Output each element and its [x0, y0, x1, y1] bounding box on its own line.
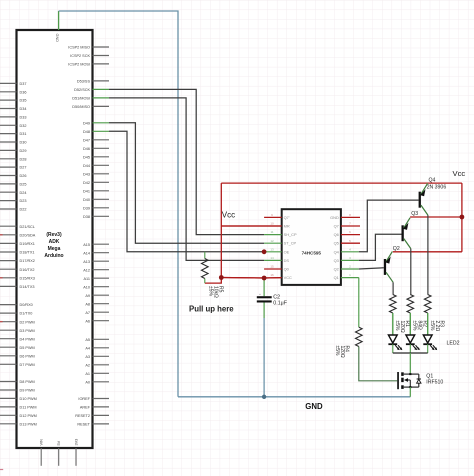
svg-text:D4 PWM: D4 PWM — [20, 337, 35, 341]
svg-text:SH_CP: SH_CP — [284, 232, 297, 237]
svg-text:D23: D23 — [20, 199, 27, 203]
svg-text:D17/RX2: D17/RX2 — [20, 259, 35, 263]
svg-text:D52/SCK: D52/SCK — [74, 88, 90, 92]
svg-text:D24: D24 — [20, 191, 27, 195]
svg-text:11: 11 — [270, 230, 273, 234]
wire 74HC595 Q4 to Q4 base — [359, 200, 419, 252]
svg-text:Q7: Q7 — [334, 224, 339, 229]
svg-text:D32: D32 — [20, 124, 27, 128]
junction dot Vcc rail right — [460, 215, 465, 220]
svg-text:VIN: VIN — [40, 439, 44, 446]
wire Q2 emitter to Vcc (red) — [393, 251, 462, 253]
svg-text:D7 PWM: D7 PWM — [20, 363, 35, 367]
transistor Q4 2N3906 (PNP) — [419, 183, 428, 215]
svg-text:D50/MISO: D50/MISO — [72, 105, 90, 109]
wire Q4 collector to R3 — [427, 215, 429, 294]
svg-text:D34: D34 — [20, 107, 27, 111]
svg-text:D30: D30 — [20, 141, 27, 145]
label Pull up here — [189, 305, 234, 314]
svg-text:12: 12 — [270, 239, 274, 243]
svg-text:A10: A10 — [83, 285, 90, 289]
label LED2 — [447, 341, 460, 347]
svg-text:A14: A14 — [83, 251, 90, 255]
svg-text:D16/TX2: D16/TX2 — [20, 268, 35, 272]
transistor Q2 (PNP) — [384, 251, 393, 282]
label Q1 IRF510 — [426, 373, 443, 385]
svg-text:16: 16 — [270, 273, 274, 277]
label R2 84Ohm 5% (rotated) — [412, 321, 428, 332]
label Q2 — [393, 246, 400, 252]
svg-text:Q1: Q1 — [426, 373, 433, 379]
wire 74HC595 Q1 to R4 — [358, 278, 360, 328]
svg-text:Mega: Mega — [48, 246, 61, 252]
svg-text:D37: D37 — [20, 82, 27, 86]
svg-text:D14/TX3: D14/TX3 — [20, 285, 35, 289]
red stub wires on GND Q7 Q6 Q5 right pins — [341, 217, 360, 243]
svg-text:±5%: ±5% — [429, 321, 435, 332]
svg-text:A12: A12 — [83, 268, 90, 272]
wire Q3 collector to R2 — [410, 249, 412, 295]
74HC595 right pin leads — [341, 252, 359, 278]
wire Vcc to VCC pin red overdraw — [221, 277, 281, 280]
label Vcc (right) — [453, 169, 466, 178]
svg-text:D49: D49 — [83, 121, 90, 125]
svg-text:Vcc: Vcc — [222, 211, 235, 220]
svg-text:D33: D33 — [20, 116, 27, 120]
label C2 0.1uF — [273, 295, 287, 307]
svg-text:13: 13 — [270, 247, 274, 251]
svg-text:A2: A2 — [85, 363, 90, 367]
svg-text:A15: A15 — [83, 243, 90, 247]
svg-text:(Rev3): (Rev3) — [46, 232, 62, 238]
svg-text:Q3: Q3 — [334, 258, 339, 263]
wire Vcc to MR red overdraw — [221, 225, 281, 227]
svg-text:±5%: ±5% — [394, 321, 400, 332]
svg-text:A9: A9 — [85, 294, 90, 298]
svg-text:D25: D25 — [20, 183, 27, 187]
wire stub edge D20/SDA (red, clipped) — [0, 234, 3, 236]
svg-text:D44: D44 — [83, 164, 90, 168]
wire Vcc vertical left (red) — [220, 183, 222, 277]
wire GND net: blue from Arduino GND to ground rail — [59, 11, 178, 397]
svg-text:D1/TX0: D1/TX0 — [20, 312, 33, 316]
svg-text:Q1: Q1 — [334, 275, 339, 280]
74HC595 right pin labels — [330, 215, 339, 280]
wire Q1 source to ground rail — [409, 387, 411, 397]
svg-text:Vcc: Vcc — [453, 169, 466, 178]
wire ground rail (blue, bottom) — [178, 396, 410, 398]
svg-text:D10 PWM: D10 PWM — [20, 397, 37, 401]
label R4 120Ohm (rotated) — [334, 346, 349, 358]
svg-text:A0: A0 — [85, 380, 90, 384]
svg-text:D9 PWM: D9 PWM — [20, 389, 35, 393]
svg-text:GND: GND — [55, 34, 59, 43]
svg-text:A11: A11 — [84, 277, 90, 281]
svg-text:D46: D46 — [83, 147, 90, 151]
svg-text:VCC: VCC — [284, 275, 292, 280]
red stub wire on Q7p lead — [264, 216, 282, 218]
LED D1 (left) — [388, 313, 402, 353]
svg-text:D36: D36 — [20, 90, 27, 94]
wire LED bus to Q1 drain — [409, 353, 411, 374]
wire stub edge bottom left (pink, clipped) — [0, 469, 3, 471]
svg-text:D26: D26 — [20, 174, 27, 178]
svg-text:RESET: RESET — [77, 423, 90, 427]
svg-text:D5 PWM: D5 PWM — [20, 346, 35, 350]
svg-text:Q3: Q3 — [411, 211, 418, 217]
svg-text:±5%: ±5% — [208, 286, 214, 297]
svg-text:D0/RX0: D0/RX0 — [20, 303, 33, 307]
resistor R5 10k pull-up — [202, 252, 209, 283]
svg-text:DS: DS — [284, 258, 290, 263]
LED D3 (right) — [423, 313, 437, 353]
74HC595 U2 body — [282, 209, 341, 285]
svg-text:D12 PWM: D12 PWM — [20, 414, 37, 418]
wire Q3 emitter to Vcc (red) — [410, 216, 462, 218]
resistor R4 120 Ohm — [356, 327, 363, 346]
svg-text:GND: GND — [330, 215, 339, 220]
svg-text:D13 PWM: D13 PWM — [20, 422, 37, 426]
svg-text:D51/MOSI: D51/MOSI — [72, 97, 90, 101]
svg-text:D18/TX1: D18/TX1 — [20, 251, 35, 255]
svg-text:Q2: Q2 — [393, 246, 400, 252]
svg-text:LED2: LED2 — [447, 341, 460, 347]
svg-text:Arduino: Arduino — [44, 253, 63, 259]
svg-text:D35: D35 — [20, 99, 27, 103]
resistor R1 120 Ohm — [390, 295, 397, 336]
junction dot Vcc/R5 node — [219, 275, 224, 280]
svg-text:D40: D40 — [83, 198, 90, 202]
svg-text:D41: D41 — [83, 189, 90, 193]
svg-text:D39: D39 — [83, 206, 90, 210]
svg-text:D22: D22 — [20, 208, 27, 212]
wire 74HC595 Q3 to Q3 base — [359, 234, 402, 260]
capacitor C2 0.1uF — [257, 278, 272, 318]
svg-text:10: 10 — [270, 222, 274, 226]
transistor Q1 IRF510 (N-MOSFET) — [397, 372, 421, 389]
wire 74HC595 Q2 to Q2 base — [359, 268, 384, 269]
svg-text:D47: D47 — [83, 138, 90, 142]
svg-text:5V: 5V — [57, 440, 61, 445]
svg-text:D43: D43 — [83, 172, 90, 176]
svg-text:D8 PWM: D8 PWM — [20, 380, 35, 384]
svg-text:Q6: Q6 — [334, 232, 339, 237]
svg-text:±5%: ±5% — [334, 346, 340, 357]
svg-text:Q4: Q4 — [429, 178, 436, 184]
svg-text:ST_CP: ST_CP — [284, 241, 297, 246]
svg-text:ICSP2 SCK: ICSP2 SCK — [70, 54, 90, 58]
svg-text:A3: A3 — [85, 355, 90, 359]
svg-text:A8: A8 — [85, 302, 90, 306]
junction dot VCC/C2 node — [262, 276, 267, 281]
svg-text:D42: D42 — [83, 181, 90, 185]
svg-text:D48: D48 — [83, 130, 90, 134]
label R1 120Ohm 5% (rotated) — [394, 321, 410, 333]
resistor R3 2.2 Ohm — [424, 295, 431, 336]
resistor R2 84 Ohm — [407, 295, 414, 336]
svg-text:Pull up here: Pull up here — [189, 305, 234, 314]
label Q4 2N 3906 — [427, 178, 447, 191]
wire R4 to Q1 gate — [359, 347, 397, 381]
svg-text:A13: A13 — [83, 260, 90, 264]
wire stub edge D2 PWM (red, clipped) — [0, 321, 3, 323]
label GND net — [305, 402, 323, 411]
svg-text:D53/SS: D53/SS — [77, 80, 91, 84]
svg-text:A7: A7 — [85, 311, 90, 315]
svg-text:Q0: Q0 — [284, 267, 290, 272]
svg-text:Q2: Q2 — [334, 267, 339, 272]
svg-text:15: 15 — [270, 265, 274, 269]
svg-text:D27: D27 — [20, 166, 27, 170]
wire D48 to 74HC595 OE — [109, 131, 264, 252]
svg-text:A6: A6 — [85, 319, 90, 323]
74HC595 right pin numbers 8-1 — [349, 213, 351, 277]
svg-text:D21/SCL: D21/SCL — [20, 225, 35, 229]
svg-text:Q5: Q5 — [334, 241, 339, 246]
svg-text:2N 3906: 2N 3906 — [427, 184, 447, 190]
svg-text:D19/RX1: D19/RX1 — [20, 242, 35, 246]
svg-text:14: 14 — [270, 256, 274, 260]
junction dot OE node — [262, 249, 267, 254]
wire D51/MOSI to 74HC595 DS — [109, 98, 264, 261]
svg-text:3V3: 3V3 — [74, 439, 78, 446]
svg-text:A1: A1 — [85, 372, 90, 376]
label R5 10kOhm 5% (rotated) — [208, 286, 224, 298]
svg-text:D29: D29 — [20, 149, 27, 153]
svg-text:RESET2: RESET2 — [75, 414, 90, 418]
svg-text:IOREF: IOREF — [78, 397, 90, 401]
label R3 2.2Ohm 5% (rotated) — [429, 321, 445, 332]
wire Vcc vertical right (red) — [461, 183, 463, 252]
74HC595 left pin labels — [284, 215, 297, 280]
74HC595 left pin leads — [264, 235, 282, 261]
svg-text:A5: A5 — [85, 338, 90, 342]
svg-text:D2 PWM: D2 PWM — [20, 320, 35, 324]
Arduino right pin leads and labels — [68, 46, 109, 427]
svg-text:D15/RX3: D15/RX3 — [20, 276, 35, 280]
svg-text:D3 PWM: D3 PWM — [20, 329, 35, 333]
red stub wire on Q0 lead — [264, 268, 282, 270]
Arduino bottom power pins VIN 5V 3V3 — [40, 439, 79, 466]
wire LED cathode bus — [393, 352, 428, 354]
svg-text:ICSP2 MISO: ICSP2 MISO — [68, 46, 90, 50]
label Q3 — [411, 211, 418, 217]
wire stub edge D15/RX3 (red, clipped) — [0, 277, 3, 279]
wire Q2 collector to R1 — [392, 282, 394, 294]
svg-text:D11 PWM: D11 PWM — [20, 406, 37, 410]
svg-text:D38: D38 — [83, 215, 90, 219]
svg-text:Q7': Q7' — [284, 215, 290, 220]
svg-text:Q4: Q4 — [334, 249, 340, 254]
wire Vcc rail top (red) — [221, 182, 462, 184]
transistor Q3 (PNP) — [402, 218, 411, 249]
label Vcc (left) — [222, 211, 235, 220]
LED D2 (middle) — [406, 313, 420, 353]
Arduino Mega ADK U1 body — [17, 30, 93, 448]
svg-text:ICSP2 MOSI: ICSP2 MOSI — [68, 63, 90, 67]
svg-text:OE: OE — [284, 249, 290, 254]
wire R5 bottom to Vcc (red) — [205, 278, 222, 284]
svg-text:A4: A4 — [85, 346, 90, 350]
wire C2 to ground rail (blue) — [263, 318, 265, 397]
svg-text:±5%: ±5% — [412, 321, 418, 332]
wire D49 to 74HC595 ST_CP — [109, 123, 264, 243]
svg-text:GND: GND — [305, 402, 323, 411]
svg-text:D6 PWM: D6 PWM — [20, 354, 35, 358]
svg-text:D20/SDA: D20/SDA — [20, 233, 36, 237]
svg-text:D45: D45 — [83, 155, 90, 159]
Arduino left pin leads and labels — [0, 82, 37, 426]
svg-text:AREF: AREF — [80, 406, 91, 410]
wire D52/SCK to 74HC595 SH_CP — [109, 89, 264, 234]
wire Vcc to 74HC595 VCC pin (red) — [221, 277, 281, 280]
svg-text:D31: D31 — [20, 132, 27, 136]
svg-text:IRF510: IRF510 — [426, 380, 443, 386]
Arduino pins D52/SCK D51/MOSI D49 D48 (green leads) — [72, 88, 109, 134]
Arduino top GND pin — [55, 11, 59, 42]
svg-text:ADK: ADK — [49, 239, 60, 245]
junction dot ground/C2 node — [262, 395, 266, 399]
svg-text:D28: D28 — [20, 157, 27, 161]
svg-text:0.1μF: 0.1μF — [273, 300, 287, 306]
74HC595 left pin numbers 9-16 — [270, 213, 274, 277]
svg-text:MR: MR — [284, 224, 290, 229]
wire Vcc to 74HC595 MR (red) — [221, 225, 281, 227]
svg-text:74HC595: 74HC595 — [302, 250, 322, 255]
